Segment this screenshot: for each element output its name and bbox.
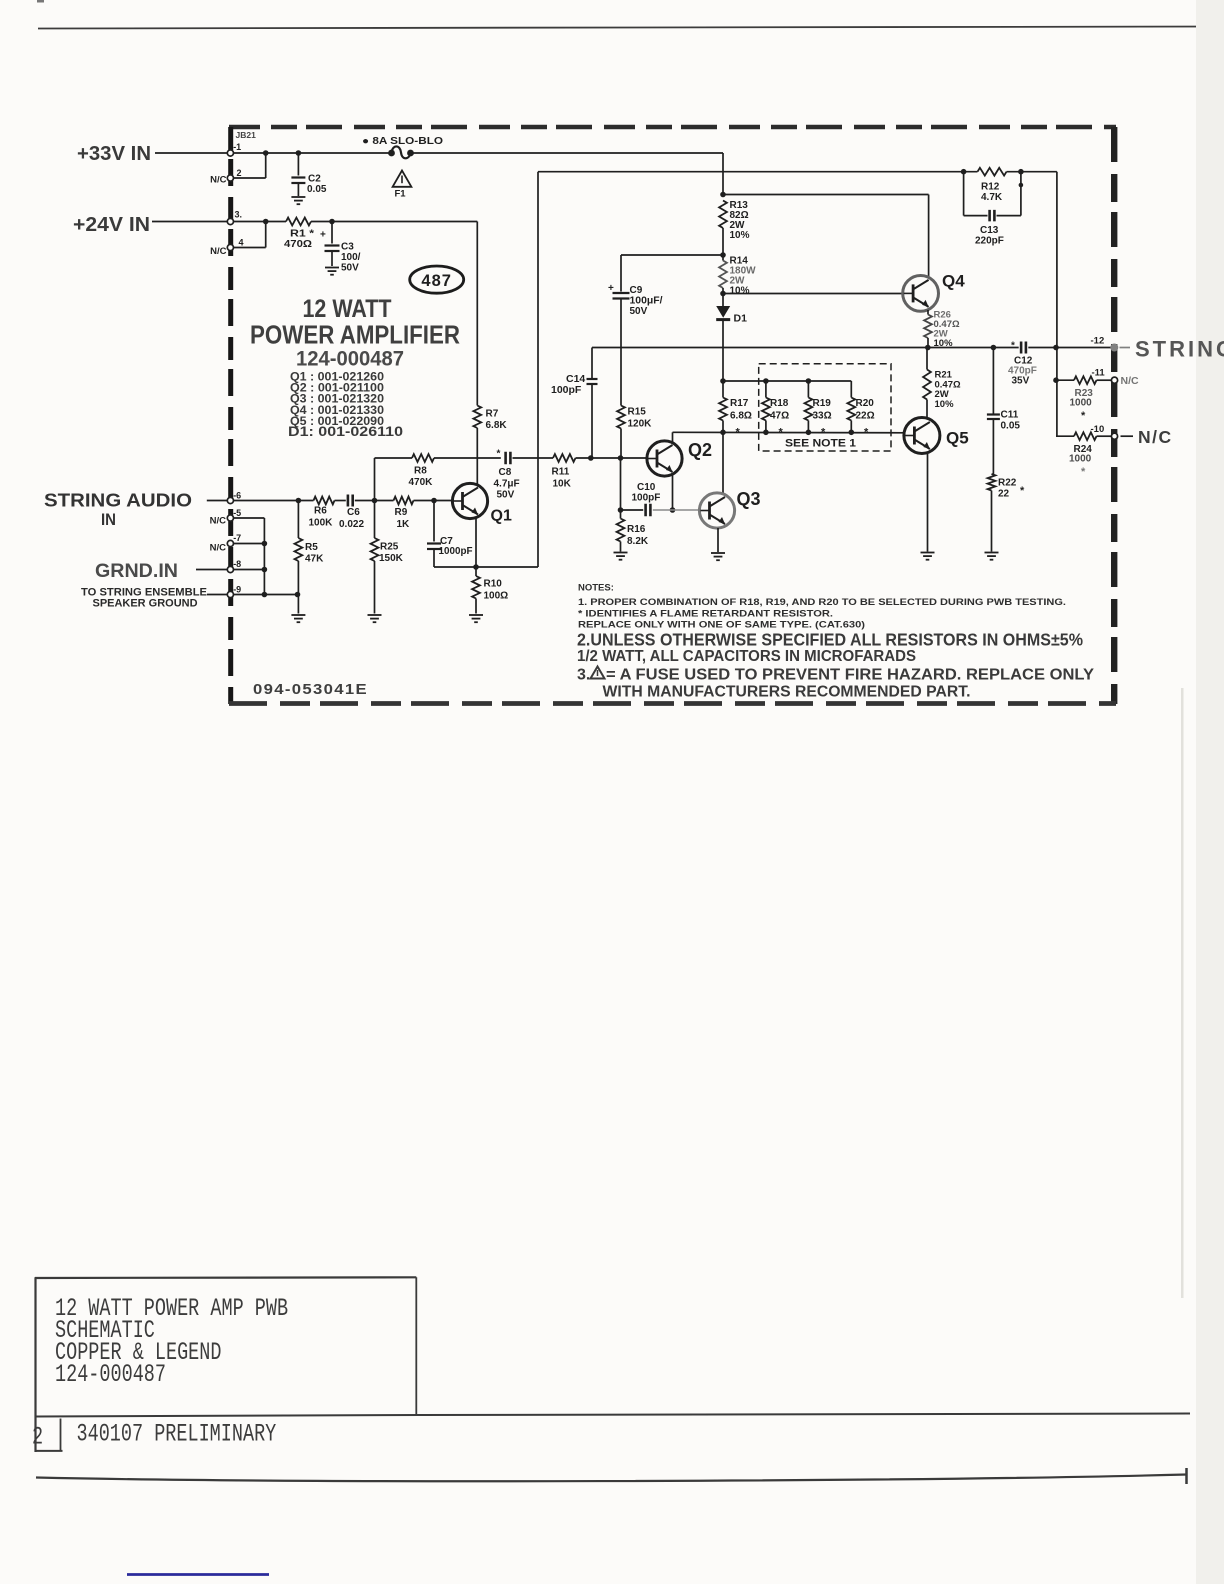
wire feedback riser x538 bbox=[537, 172, 539, 567]
label N/C pin4 bbox=[210, 246, 227, 257]
svg-text:47Ω: 47Ω bbox=[770, 411, 789, 422]
wire pin7 link bbox=[234, 543, 265, 545]
svg-text:IN: IN bbox=[101, 510, 116, 529]
junction emitter-feedback node bbox=[473, 564, 479, 570]
capacitor C6 bbox=[339, 495, 364, 530]
resistor R11 bbox=[552, 454, 576, 489]
svg-text:10%: 10% bbox=[934, 338, 954, 349]
svg-text:487: 487 bbox=[421, 272, 452, 290]
svg-text:2: 2 bbox=[32, 1423, 43, 1451]
svg-text:-6: -6 bbox=[233, 491, 241, 501]
ground R10 bbox=[469, 615, 483, 622]
junction R18 top bbox=[763, 378, 769, 384]
junction R5 top bbox=[296, 498, 302, 504]
svg-text:124-000487: 124-000487 bbox=[296, 348, 404, 371]
diode D1 bbox=[716, 294, 747, 382]
pin 2 bbox=[227, 175, 233, 181]
dashed border top bbox=[229, 125, 1116, 130]
svg-text:1. PROPER COMBINATION OF R18,: 1. PROPER COMBINATION OF R18, R19, AND R… bbox=[578, 597, 1066, 608]
junction C11 rail bbox=[991, 345, 997, 351]
junction pin2 node bbox=[263, 150, 269, 156]
svg-text:D1: 001-026110: D1: 001-026110 bbox=[288, 424, 403, 439]
wire pin5 down-bus bbox=[234, 518, 265, 595]
svg-text:F1: F1 bbox=[395, 189, 407, 200]
pin 6 bbox=[227, 497, 233, 503]
resistor R23 bbox=[1056, 376, 1111, 422]
svg-text:JB21: JB21 bbox=[236, 130, 257, 140]
wire pin4 to +24 node bbox=[234, 222, 266, 248]
junction R23 branch bbox=[1053, 377, 1059, 383]
resistor R17 bbox=[719, 381, 752, 439]
resistor R26 bbox=[924, 310, 960, 350]
svg-text:C3: C3 bbox=[341, 242, 354, 253]
svg-text:-9: -9 bbox=[233, 584, 241, 594]
svg-text:+33V IN: +33V IN bbox=[77, 143, 151, 165]
dashed border left / connector JB21 line bbox=[228, 127, 233, 704]
svg-text:-7: -7 bbox=[233, 533, 241, 543]
svg-text:120K: 120K bbox=[628, 419, 653, 430]
title 124-000487 bbox=[296, 348, 404, 371]
svg-text:*: * bbox=[497, 449, 501, 460]
svg-text:100pF: 100pF bbox=[632, 493, 661, 504]
svg-text:N/C: N/C bbox=[210, 174, 227, 185]
svg-text:R11: R11 bbox=[552, 467, 570, 478]
svg-text:R1 *: R1 * bbox=[290, 229, 314, 240]
wire R12 right bbox=[1007, 171, 1057, 173]
svg-text:R12: R12 bbox=[981, 182, 1000, 193]
wire speaker-ground lead bbox=[207, 594, 227, 596]
junction C2 node bbox=[296, 150, 302, 156]
revision strip bottom rule bbox=[36, 1475, 1187, 1482]
note 1 bbox=[578, 597, 1066, 608]
svg-text:+: + bbox=[320, 230, 326, 241]
svg-text:4.7K: 4.7K bbox=[981, 192, 1003, 203]
svg-text:R20: R20 bbox=[856, 398, 875, 409]
svg-text:150K: 150K bbox=[379, 553, 404, 564]
junction C14 branch bbox=[588, 455, 594, 461]
warning triangle F1 bbox=[393, 171, 412, 200]
svg-text:-5: -5 bbox=[233, 508, 241, 518]
svg-text:100pF: 100pF bbox=[551, 384, 582, 396]
wire C8 to R11 bbox=[513, 457, 554, 459]
wire pin9 to R5 bottom bbox=[234, 594, 298, 596]
dashed border bottom bbox=[229, 701, 1116, 706]
wire R9 to Q1 base bbox=[414, 500, 453, 502]
parts list Q3 bbox=[290, 394, 384, 406]
wire -10 lead bbox=[1121, 435, 1134, 437]
pin -10 bbox=[1111, 433, 1117, 439]
junction pin9 bus bbox=[262, 592, 268, 598]
label TO STRING ENSEMBLE SPEAKER GROUND bbox=[81, 587, 207, 610]
capacitor C9 bbox=[608, 255, 663, 406]
note 3 fuse triangle bbox=[591, 667, 605, 679]
svg-text:-1: -1 bbox=[233, 142, 241, 152]
svg-text:Q3: Q3 bbox=[737, 489, 761, 509]
svg-text:C9: C9 bbox=[630, 285, 643, 296]
capacitor C2 bbox=[291, 153, 327, 196]
junction R20 bottom bbox=[849, 430, 855, 436]
svg-text:= A FUSE USED TO PREVENT FIRE: = A FUSE USED TO PREVENT FIRE HAZARD. RE… bbox=[606, 667, 1094, 684]
wire R8 riser bbox=[375, 458, 413, 501]
pin 3 bbox=[227, 218, 233, 224]
svg-text:N/C: N/C bbox=[1121, 375, 1140, 387]
svg-text:Q4: Q4 bbox=[942, 272, 965, 291]
label STRING OUT bbox=[1135, 337, 1224, 362]
pin 9 label bbox=[233, 584, 241, 594]
svg-text:33Ω: 33Ω bbox=[813, 411, 832, 422]
svg-text:+24V IN: +24V IN bbox=[73, 214, 150, 236]
parts list Q4 bbox=[290, 405, 384, 417]
junction R12 left bbox=[961, 169, 967, 175]
wire +24V rail bbox=[234, 221, 287, 223]
svg-text:Q2: Q2 bbox=[688, 440, 712, 460]
svg-text:-8: -8 bbox=[233, 559, 241, 569]
ground C2 bbox=[291, 197, 305, 204]
title 12 WATT bbox=[303, 295, 392, 323]
svg-text:1000: 1000 bbox=[1070, 397, 1093, 408]
resistor R19 bbox=[805, 381, 832, 439]
capacitor C10 bbox=[632, 482, 661, 516]
revision strip rule bbox=[36, 1414, 1190, 1417]
junction R14 top bbox=[720, 252, 726, 258]
parts list Q5 bbox=[290, 416, 384, 428]
svg-text:R16: R16 bbox=[627, 524, 646, 535]
resistor R22 bbox=[988, 474, 1025, 552]
resistor R1 bbox=[284, 218, 314, 250]
label GRND.IN bbox=[95, 561, 178, 582]
svg-text:R5: R5 bbox=[305, 542, 318, 553]
wire output rail bbox=[592, 347, 1019, 349]
wire Q1 emitter bbox=[475, 517, 477, 577]
svg-text:220pF: 220pF bbox=[975, 235, 1004, 246]
terminal -12 bbox=[1091, 335, 1131, 351]
svg-text:R6: R6 bbox=[314, 506, 327, 517]
pin 5 label bbox=[233, 508, 241, 518]
wire +24V lead-in bbox=[152, 221, 227, 223]
note 3 prefix bbox=[577, 667, 590, 684]
svg-text:3.: 3. bbox=[235, 210, 243, 220]
svg-text:8.2K: 8.2K bbox=[627, 536, 649, 547]
resistor R16 bbox=[617, 519, 649, 552]
transistor Q1 bbox=[452, 483, 512, 524]
svg-text:R10: R10 bbox=[484, 579, 503, 590]
resistor R15 bbox=[617, 406, 652, 459]
pin 9 bbox=[227, 591, 233, 597]
svg-text:10%: 10% bbox=[730, 230, 750, 241]
svg-text:SEE NOTE 1: SEE NOTE 1 bbox=[785, 438, 856, 450]
pin 6 label bbox=[233, 491, 241, 501]
svg-text:50V: 50V bbox=[497, 490, 515, 501]
svg-text:100Ω: 100Ω bbox=[484, 591, 509, 602]
svg-text:22: 22 bbox=[998, 489, 1010, 500]
capacitor C12 bbox=[1008, 341, 1037, 387]
revision box bbox=[32, 1419, 63, 1452]
svg-text:6.8K: 6.8K bbox=[486, 420, 508, 431]
svg-text:10K: 10K bbox=[553, 479, 572, 490]
svg-text:100/: 100/ bbox=[341, 252, 361, 263]
title block line 4 bbox=[55, 1361, 166, 1389]
pin -11 bbox=[1111, 377, 1117, 383]
svg-text:0.022: 0.022 bbox=[339, 519, 364, 530]
resistor R21 bbox=[923, 348, 961, 419]
wire pin6 to R6 bbox=[234, 500, 314, 502]
junction Q1 base node bbox=[431, 498, 437, 504]
pin 1 bbox=[227, 150, 233, 156]
ground R16 bbox=[614, 553, 628, 560]
svg-text:0.05: 0.05 bbox=[1001, 421, 1021, 432]
wire string audio lead bbox=[207, 500, 228, 502]
resistor R5 bbox=[295, 501, 325, 614]
svg-text:340107 PRELIMINARY: 340107 PRELIMINARY bbox=[77, 1420, 277, 1448]
pin -11 label bbox=[1092, 368, 1106, 379]
notes heading bbox=[578, 583, 614, 594]
svg-text:470K: 470K bbox=[409, 477, 434, 488]
svg-text:D1: D1 bbox=[734, 313, 748, 325]
junction R19 top bbox=[806, 378, 812, 384]
svg-text:1000: 1000 bbox=[1069, 454, 1092, 465]
wire C13 loop bbox=[964, 172, 1024, 216]
page top-left trim mark bbox=[37, 0, 44, 3]
title block line 2 bbox=[55, 1317, 155, 1345]
parts list Q2 bbox=[290, 383, 384, 395]
badge 487 bbox=[410, 266, 464, 293]
junction rail x1056 bbox=[1053, 345, 1059, 351]
wire C14 branch bbox=[591, 348, 593, 459]
pin -10 label bbox=[1091, 424, 1105, 435]
junction R5 bottom bbox=[295, 592, 301, 598]
junction R15 branch bbox=[618, 455, 624, 461]
resistor R24 bbox=[1056, 432, 1111, 478]
svg-text:2: 2 bbox=[237, 168, 242, 178]
pin 1 label bbox=[233, 142, 241, 152]
wire R17-R20 top bbox=[723, 380, 851, 382]
svg-text:1K: 1K bbox=[397, 519, 411, 530]
wire R16 tap to C10 bbox=[621, 509, 644, 511]
label N/C -10 bbox=[1138, 427, 1173, 447]
page top rule bbox=[38, 27, 1224, 29]
note 3 text bbox=[606, 667, 1094, 684]
note 2 line 1 bbox=[577, 630, 1083, 650]
transistor Q5 bbox=[904, 418, 969, 454]
svg-text:R22: R22 bbox=[998, 478, 1017, 489]
svg-text:10%: 10% bbox=[935, 399, 955, 410]
ground R25 bbox=[368, 615, 382, 622]
capacitor C8 bbox=[494, 449, 520, 501]
svg-text:R8: R8 bbox=[414, 466, 427, 477]
svg-text:1/2 WATT, ALL CAPACITORS IN MI: 1/2 WATT, ALL CAPACITORS IN MICROFARADS bbox=[577, 648, 916, 665]
transistor Q3 bbox=[699, 489, 760, 528]
svg-text:R17: R17 bbox=[730, 398, 749, 409]
note 3 line 2 bbox=[603, 684, 971, 701]
title block right rule bbox=[415, 1277, 417, 1416]
wire R7 to Q1 collector bbox=[476, 428, 478, 485]
svg-text:4: 4 bbox=[239, 238, 244, 248]
wire +33 to Q4 collector bbox=[723, 195, 929, 279]
pin 7 bbox=[227, 540, 233, 546]
transistor Q2 bbox=[647, 440, 712, 476]
junction Q4 base node bbox=[720, 291, 726, 297]
svg-text:*: * bbox=[1020, 485, 1025, 497]
wire feedback top bbox=[538, 171, 978, 173]
capacitor C14 bbox=[551, 373, 598, 396]
svg-text:GRND.IN: GRND.IN bbox=[95, 561, 178, 582]
svg-text:STRING AUDIO: STRING AUDIO bbox=[44, 490, 192, 511]
svg-text:Q1: Q1 bbox=[491, 508, 512, 525]
label N/C -11 bbox=[1121, 375, 1140, 387]
svg-text:NOTES:: NOTES: bbox=[578, 583, 614, 594]
ground Q3 bbox=[711, 553, 725, 560]
svg-text:094-053041E: 094-053041E bbox=[253, 681, 368, 698]
label N/C pin7 bbox=[210, 543, 227, 554]
svg-text:6.8Ω: 6.8Ω bbox=[730, 411, 752, 422]
wire Q4 base bbox=[723, 293, 903, 295]
wire pin8 link bbox=[234, 569, 265, 571]
title block left rule bbox=[34, 1277, 36, 1452]
svg-text:4.7μF: 4.7μF bbox=[494, 478, 520, 489]
svg-text:-11: -11 bbox=[1092, 368, 1106, 379]
fuse F1 bbox=[388, 146, 414, 158]
see-note dashed box bbox=[759, 364, 891, 451]
wire +33V lead-in bbox=[155, 152, 227, 154]
pin 8 label bbox=[233, 559, 241, 569]
ground R5 bbox=[291, 615, 305, 622]
svg-text:*: * bbox=[1081, 410, 1086, 422]
wire R8 to C8 bbox=[434, 457, 501, 459]
svg-text:N/C: N/C bbox=[1138, 427, 1173, 447]
resistor R6 bbox=[309, 497, 335, 529]
resistor R7 bbox=[473, 406, 507, 432]
revision strip right tick bbox=[1185, 1468, 1188, 1484]
ground C3 bbox=[325, 268, 339, 275]
scan edge shading right bbox=[1181, 0, 1224, 1584]
wire pin2 to +33 node bbox=[234, 153, 266, 178]
svg-text:3.: 3. bbox=[577, 667, 590, 684]
svg-text:-10: -10 bbox=[1091, 424, 1105, 435]
svg-text:47K: 47K bbox=[305, 553, 324, 564]
svg-text:R19: R19 bbox=[813, 398, 832, 409]
svg-text:124-000487: 124-000487 bbox=[55, 1361, 166, 1389]
junction R12 right bbox=[1018, 169, 1024, 175]
svg-text:2.UNLESS OTHERWISE SPECIFIED A: 2.UNLESS OTHERWISE SPECIFIED ALL RESISTO… bbox=[577, 630, 1083, 650]
wire +33V rail to fuse bbox=[234, 152, 390, 154]
svg-text:Q5: Q5 bbox=[946, 429, 969, 448]
wire Q2 collector to Q5 base bbox=[673, 432, 905, 442]
svg-text:50V: 50V bbox=[341, 263, 359, 274]
junction R19 bottom bbox=[806, 430, 812, 436]
note replace bbox=[578, 620, 865, 631]
wire Q3 emitter bbox=[717, 528, 719, 552]
svg-text:100K: 100K bbox=[309, 517, 334, 528]
pin 3 label bbox=[235, 210, 243, 220]
junction R26 rail bbox=[925, 345, 931, 351]
wire C12 to -12 bbox=[1028, 347, 1110, 349]
svg-text:C2: C2 bbox=[308, 174, 321, 185]
svg-text:R9: R9 bbox=[395, 507, 408, 518]
capacitor C3 bbox=[320, 222, 361, 274]
pin 4 bbox=[227, 244, 233, 250]
capacitor C7 bbox=[427, 501, 473, 568]
junction pin4 node bbox=[263, 219, 269, 225]
junction C10 right bbox=[670, 507, 676, 513]
svg-text:100μF/: 100μF/ bbox=[630, 296, 663, 307]
junction pin7 bus bbox=[262, 541, 268, 547]
wire R11 to Q2 base bbox=[576, 457, 648, 459]
junction R8 tap bbox=[372, 498, 378, 504]
label STRING AUDIO IN bbox=[44, 490, 192, 530]
resistor R8 bbox=[409, 454, 435, 488]
svg-text:C11: C11 bbox=[1001, 410, 1019, 421]
svg-text:35V: 35V bbox=[1012, 376, 1030, 387]
revision text 340107 PRELIMINARY bbox=[77, 1420, 277, 1448]
svg-text:R7: R7 bbox=[486, 409, 499, 420]
label N/C pin2 bbox=[210, 174, 227, 185]
svg-text:*: * bbox=[1081, 466, 1086, 478]
svg-text:-12: -12 bbox=[1091, 335, 1105, 346]
junction pin8 bus bbox=[262, 567, 268, 573]
svg-text:C8: C8 bbox=[499, 467, 512, 478]
svg-text:*: * bbox=[1011, 341, 1015, 352]
svg-text:0.05: 0.05 bbox=[307, 184, 327, 195]
svg-text:10%: 10% bbox=[730, 286, 750, 297]
pin 4 label bbox=[239, 238, 244, 248]
svg-text:C6: C6 bbox=[347, 507, 360, 518]
svg-text:WITH MANUFACTURERS RECOMMENDED: WITH MANUFACTURERS RECOMMENDED PART. bbox=[603, 684, 971, 701]
resistor R9 bbox=[394, 497, 414, 530]
wire right bus down bbox=[1056, 172, 1058, 437]
title block top rule bbox=[35, 1276, 416, 1279]
svg-text:R18: R18 bbox=[770, 398, 789, 409]
svg-text:* IDENTIFIES A FLAME RETARDANT: * IDENTIFIES A FLAME RETARDANT RESISTOR. bbox=[578, 609, 833, 620]
wire C6 to R9 bbox=[355, 500, 394, 502]
ground R22 bbox=[985, 553, 999, 560]
wire C10 to Q3 base bbox=[653, 509, 700, 511]
wire grnd lead bbox=[196, 569, 227, 571]
junction R18 bottom bbox=[763, 430, 769, 436]
junction R13 top bbox=[720, 192, 726, 198]
resistor R20 bbox=[847, 381, 874, 439]
resistor R10 bbox=[472, 576, 508, 614]
wire R6 to C6 bbox=[335, 500, 346, 502]
svg-text:N/C: N/C bbox=[210, 515, 227, 526]
title POWER AMPLIFIER bbox=[250, 320, 460, 350]
svg-text:470Ω: 470Ω bbox=[284, 239, 312, 250]
wire +33V rail fuse to corner bbox=[414, 153, 724, 193]
pin 8 bbox=[227, 566, 233, 572]
note 2 line 2 bbox=[577, 648, 916, 665]
label 8A SLO-BLO bbox=[362, 136, 443, 147]
resistor R12 bbox=[978, 168, 1007, 203]
wire Q5 emitter bbox=[927, 453, 929, 552]
drawing number 094-053041E bbox=[253, 681, 368, 698]
junction C3 node bbox=[329, 219, 335, 225]
label +33V IN bbox=[77, 143, 151, 165]
resistor R13 bbox=[719, 200, 750, 261]
wire R17 to Q3 collector bbox=[722, 432, 724, 494]
svg-text:R15: R15 bbox=[628, 407, 647, 418]
resistor R25 bbox=[371, 501, 404, 614]
capacitor C11 bbox=[987, 348, 1021, 475]
svg-text:STRING: STRING bbox=[1135, 337, 1224, 362]
wire feedback bottom bbox=[434, 566, 538, 568]
ground Q5 bbox=[921, 553, 935, 560]
wire R14 to C9 bbox=[621, 254, 723, 256]
wire R1 to R7 bbox=[311, 222, 477, 406]
junction R17 top bbox=[720, 378, 726, 384]
note asterisk bbox=[578, 609, 833, 620]
svg-text:50V: 50V bbox=[630, 306, 648, 317]
label N/C pin5 bbox=[210, 515, 227, 526]
wire R15 to R16 bbox=[620, 458, 622, 519]
